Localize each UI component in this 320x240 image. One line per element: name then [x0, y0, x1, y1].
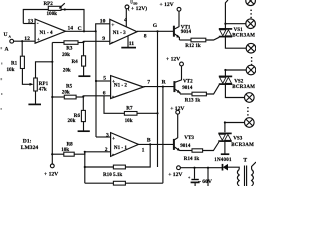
potentiometer RP1 — [34, 78, 49, 93]
svg-text:R14 1k: R14 1k — [184, 156, 200, 162]
svg-text:T: T — [243, 158, 247, 164]
+12V terminal bottom mid — [168, 166, 182, 178]
transistor VT3 — [174, 135, 194, 151]
lamp H1 (cut at top) — [246, 0, 256, 6]
ground below pin 11 — [121, 47, 136, 49]
lamp H4 — [246, 65, 256, 75]
svg-text:8: 8 — [144, 34, 147, 40]
wire VT3 emitter to R14 — [180, 150, 192, 152]
IC label D1 LM324 — [21, 139, 39, 151]
transistor VT1 — [174, 24, 192, 40]
svg-text:7: 7 — [147, 79, 150, 85]
pin 9 wire — [84, 40, 110, 42]
svg-text:20k: 20k — [62, 90, 70, 96]
svg-text:20k: 20k — [63, 67, 71, 73]
wire R7 to G bus — [137, 112, 158, 114]
node dot R3/R4 — [82, 41, 84, 43]
transistor VT2 — [174, 79, 193, 94]
wire R4 top — [83, 42, 85, 56]
resistor R14 — [184, 149, 203, 162]
svg-text:C: C — [78, 26, 82, 32]
svg-text:6: 6 — [103, 91, 106, 97]
wire R10 left to pin2 bus — [85, 166, 114, 168]
op-amp N1-4 — [35, 19, 65, 43]
dotted chain 1 — [250, 10, 251, 19]
node dot input/R1 junction — [21, 40, 23, 42]
resistor R4 — [63, 56, 86, 74]
svg-text:R7: R7 — [126, 105, 133, 111]
svg-text:BCR3AM: BCR3AM — [231, 143, 254, 148]
wire VS2 MT1 to lamp H5 — [225, 84, 244, 97]
wire VS3 MT1 down — [224, 141, 226, 154]
wire G bus down to R7 — [157, 31, 159, 167]
svg-text:10k: 10k — [125, 118, 133, 124]
wire B down to R10 — [125, 144, 150, 167]
wire VT2 emitter to R13 — [180, 93, 192, 95]
pin 11 wire to ground — [127, 36, 129, 47]
resistor R5 — [62, 84, 76, 99]
svg-text:10: 10 — [100, 18, 106, 24]
svg-text:14: 14 — [68, 26, 74, 32]
svg-text:DD: DD — [133, 2, 137, 5]
svg-text:BCR3AM: BCR3AM — [232, 33, 255, 38]
node dot R7/G bus — [156, 112, 158, 114]
output 1 wire node B to VT3 — [139, 143, 174, 145]
output 7 wire to node R and VT2 — [144, 86, 174, 88]
svg-text:9014: 9014 — [182, 85, 193, 91]
svg-text:D1:: D1: — [23, 139, 32, 145]
output 8 wire to node G and VT1 — [137, 30, 174, 32]
wire R11 left — [85, 182, 114, 184]
wire +12V to VT1 collector — [175, 11, 180, 29]
node dot capacitor — [193, 167, 195, 169]
svg-text:( + 12V): ( + 12V) — [128, 5, 147, 12]
svg-text:LM324: LM324 — [21, 145, 39, 151]
svg-text:20k: 20k — [62, 52, 70, 58]
resistor R3 — [62, 41, 78, 58]
svg-text:10k: 10k — [61, 147, 69, 153]
wire R1 top — [21, 41, 23, 56]
wire rail to R3 — [52, 42, 64, 44]
svg-text:BCR3AM: BCR3AM — [232, 85, 255, 90]
wire lamp H6 to VS3 MT2 — [225, 123, 245, 133]
input terminal UA / node A — [4, 32, 14, 53]
svg-text:9014: 9014 — [180, 143, 191, 149]
svg-text:47k: 47k — [39, 87, 47, 93]
svg-text:5: 5 — [103, 76, 106, 82]
svg-text:N1 - 4: N1 - 4 — [40, 30, 53, 36]
node dot R — [162, 86, 164, 88]
+12V terminal top (VT1 collector) — [160, 2, 181, 11]
wire R1 bottom to RP1 wiper — [22, 69, 30, 85]
wire RP1 top to +12V rail — [36, 62, 53, 78]
node dot rail/RP1 — [51, 61, 53, 63]
resistor R11 (cut at bottom edge) — [113, 181, 125, 185]
lamp H3 — [246, 43, 256, 53]
ground below VS3 — [221, 153, 230, 155]
svg-text:N1 - 3: N1 - 3 — [113, 30, 126, 36]
svg-text:-: - — [111, 40, 113, 46]
svg-text:A: A — [5, 46, 9, 52]
wire R8 to pin2 node — [74, 152, 85, 154]
svg-text:R5: R5 — [66, 84, 73, 90]
svg-text:1N4001: 1N4001 — [214, 158, 232, 163]
wire R13 to VS2 gate — [206, 85, 219, 94]
svg-text:1: 1 — [142, 147, 145, 153]
feedback wire pin13 up and over — [23, 10, 48, 24]
svg-text:+: + — [112, 136, 115, 142]
svg-text:-: - — [112, 151, 114, 157]
pin 5 wire from C bus — [96, 80, 111, 82]
wire rail to R5 — [52, 96, 64, 98]
wire R4 bottom — [83, 66, 85, 76]
output wire node C — [66, 30, 96, 32]
svg-text:R12 1k: R12 1k — [185, 43, 201, 49]
node dot lamp chain 2 — [224, 69, 226, 71]
svg-text:+: + — [37, 37, 40, 43]
+12V terminal (VT3 collector) — [170, 106, 184, 114]
node dot pin5 — [95, 80, 97, 82]
wire lamp H2 to MT2 — [225, 23, 245, 25]
lamp H5 — [245, 93, 255, 103]
svg-text:10k: 10k — [7, 67, 15, 73]
op-amp N1-1 — [111, 133, 139, 158]
svg-text:13: 13 — [28, 19, 34, 25]
svg-text:+: + — [111, 23, 114, 29]
pin 4 wire to supply — [125, 9, 127, 27]
svg-text:R10 5.1k: R10 5.1k — [103, 172, 122, 178]
wire R11 right to R bus — [125, 182, 162, 184]
pin 6 wire — [83, 95, 110, 97]
svg-text:R13 1k: R13 1k — [185, 97, 201, 103]
svg-text:-: - — [112, 94, 114, 100]
wire C to pin 10 — [96, 24, 110, 32]
ground below R4 — [78, 75, 90, 77]
svg-text:11: 11 — [129, 41, 134, 47]
node dot feedback/output — [83, 30, 85, 32]
svg-text:VS2: VS2 — [234, 79, 244, 85]
diode VD 1N4001 — [223, 164, 229, 171]
pin2 bus vertical — [84, 152, 86, 183]
svg-text:N1 - 2: N1 - 2 — [114, 82, 127, 88]
svg-text:+ 12V: + 12V — [170, 106, 184, 112]
svg-text:+: + — [112, 79, 115, 85]
wire R3 to pin9 node — [78, 42, 84, 44]
wire VS1 MT2 up — [225, 0, 228, 29]
resistor R10 — [103, 165, 125, 178]
svg-text:N1 - 1: N1 - 1 — [114, 145, 127, 151]
svg-text:VT2: VT2 — [183, 79, 193, 85]
+12V terminal mid (VT2 collector) — [166, 57, 183, 66]
svg-text:-: - — [37, 21, 39, 27]
svg-text:+ 12V: + 12V — [168, 172, 182, 178]
svg-text:VT3: VT3 — [184, 135, 194, 141]
op-amp N1-2 — [111, 76, 144, 100]
wire C bus down to pins 5 and 3 — [95, 31, 97, 81]
node dot B — [149, 143, 151, 145]
node dot rail/R8 — [51, 153, 53, 155]
svg-text:VS1: VS1 — [234, 27, 244, 33]
svg-text:+ 12V: + 12V — [160, 2, 174, 8]
svg-text:4: 4 — [124, 18, 127, 24]
wire RP1 bottom — [35, 91, 37, 104]
wire +12V to VT2 collector — [175, 66, 182, 82]
svg-text:100k: 100k — [47, 11, 58, 17]
triac VS2 — [219, 76, 255, 90]
node dot second branch — [207, 167, 209, 169]
potentiometer RP2 — [44, 1, 62, 17]
node dot R5/R6/pin6 — [82, 95, 84, 97]
dotted chain 3 — [247, 107, 248, 116]
node dot pin2bus/R10 — [84, 166, 86, 168]
node dot lamp chain 3 — [224, 121, 226, 123]
svg-text:9: 9 — [102, 36, 105, 42]
capacitor C (electrolytic) — [188, 168, 200, 186]
svg-text:R4: R4 — [72, 59, 79, 65]
wire R6 top — [82, 97, 84, 111]
resistor R13 — [185, 92, 207, 103]
feedback wire pin6 down to R7 — [104, 96, 124, 114]
wire +12V to diode — [180, 167, 222, 169]
ground below RP1 — [28, 103, 41, 105]
svg-text:G: G — [153, 23, 158, 29]
pin 3 wire from C bus — [96, 136, 111, 138]
wire R bus down — [162, 87, 164, 184]
triac VS3 — [218, 133, 254, 148]
lamp H6 — [245, 118, 255, 128]
resistor R12 — [185, 38, 206, 49]
svg-text:2: 2 — [105, 147, 108, 153]
potentiometer RP1 wiper arrow — [30, 83, 34, 86]
wire VT1 emitter to R12 — [179, 39, 191, 41]
wire RP2 right to output — [61, 10, 84, 32]
svg-text:B: B — [147, 138, 151, 144]
svg-text:R3: R3 — [66, 45, 73, 51]
node dot C — [95, 30, 97, 32]
pin 2 wire — [85, 151, 111, 153]
pin 13 wire — [23, 23, 35, 25]
wire R6 bottom — [83, 122, 85, 131]
op-amp N1-3 — [110, 19, 137, 45]
node dot RP2 tap — [64, 8, 66, 10]
svg-text:R1: R1 — [11, 60, 18, 66]
svg-text:U: U — [4, 32, 8, 38]
resistor R1 — [7, 56, 25, 73]
+12V terminal bottom left — [44, 164, 58, 177]
wire down from second branch — [207, 168, 209, 186]
wire lamp H4 to VS2 MT2 — [225, 70, 246, 76]
dotted chain 2 — [251, 57, 252, 65]
node dot rail/R5 — [51, 96, 53, 98]
wire VS1 MT1 to lamp H3 — [225, 37, 246, 49]
wire UA to pin 12 — [14, 40, 35, 42]
wire R14 to VS3 gate — [203, 142, 219, 151]
transformer T — [198, 158, 256, 186]
RP2 wiper arrow — [60, 3, 65, 7]
svg-text:12: 12 — [24, 36, 30, 42]
ground below R6 — [78, 130, 90, 132]
svg-text:+ 12V: + 12V — [166, 57, 180, 63]
node dot pin2 — [84, 151, 86, 153]
resistor R7 — [124, 105, 137, 124]
node dot lamp chain 1 — [224, 23, 226, 25]
supply terminal UDD — [125, 1, 147, 12]
scan edge specks — [1, 47, 3, 110]
svg-text:+ 12V: + 12V — [44, 171, 58, 177]
svg-text:9014: 9014 — [181, 29, 192, 35]
resistor R8 — [61, 141, 74, 156]
wire +12V to VT3 collector — [175, 114, 178, 140]
wire R12 to VS1 gate — [206, 37, 220, 40]
wire R5 to pin6 node — [76, 96, 83, 98]
lamp H2 — [246, 19, 256, 29]
svg-text:RP2: RP2 — [44, 1, 54, 7]
node dot G — [156, 30, 158, 32]
+12V rail left (vertical) — [51, 43, 53, 165]
resistor R6 — [68, 110, 86, 124]
wire diode to transformer — [228, 167, 239, 169]
svg-text:20k: 20k — [68, 118, 76, 124]
triac VS1 — [219, 27, 255, 38]
svg-text:~ 60V: ~ 60V — [198, 179, 212, 185]
wire rail to R8 — [52, 153, 64, 155]
svg-text:VS3: VS3 — [233, 136, 243, 142]
svg-text:3: 3 — [106, 132, 109, 138]
